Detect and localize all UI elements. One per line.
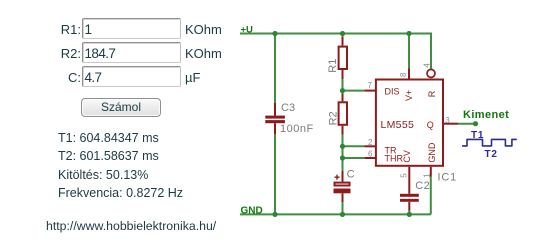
svg-text:4: 4 — [422, 63, 431, 68]
svg-text:6: 6 — [368, 149, 373, 158]
svg-text:GND: GND — [241, 206, 263, 217]
svg-text:7: 7 — [368, 81, 373, 90]
svg-text:THR: THR — [385, 153, 404, 163]
svg-text:C2: C2 — [415, 180, 430, 192]
svg-text:1: 1 — [422, 173, 431, 178]
svg-text:Q: Q — [427, 120, 434, 130]
svg-text:V+: V+ — [404, 90, 414, 101]
svg-text:GND: GND — [427, 142, 437, 163]
svg-text:2: 2 — [368, 138, 373, 147]
svg-text:100nF: 100nF — [280, 123, 314, 135]
svg-text:Kimenet: Kimenet — [463, 109, 509, 121]
svg-text:+U: +U — [241, 25, 254, 36]
svg-text:8: 8 — [399, 72, 408, 77]
svg-text:R1: R1 — [327, 59, 339, 73]
svg-text:T2: T2 — [485, 149, 498, 160]
svg-text:R: R — [427, 90, 437, 97]
svg-text:R2: R2 — [327, 111, 339, 125]
svg-text:IC1: IC1 — [438, 172, 458, 184]
svg-text:C: C — [347, 169, 355, 181]
svg-text:DIS: DIS — [385, 87, 400, 97]
svg-text:3: 3 — [445, 116, 450, 125]
svg-text:C3: C3 — [281, 102, 295, 114]
svg-text:LM555: LM555 — [381, 119, 415, 131]
svg-text:5: 5 — [400, 173, 409, 178]
svg-text:T1: T1 — [471, 130, 484, 141]
svg-text:CV: CV — [402, 150, 412, 163]
